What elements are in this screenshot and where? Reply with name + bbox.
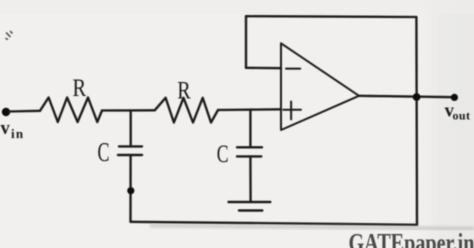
capacitor C2 [237, 147, 262, 156]
svg-text:R: R [73, 73, 87, 102]
wire C1 bottom down to bottom rail [129, 155, 131, 222]
node B stub down to C2 [249, 110, 251, 148]
op-amp U1 triangle [281, 43, 359, 130]
wire inverting input [246, 67, 281, 70]
node A stub down to C1 [130, 111, 132, 147]
wire bottom rail [131, 222, 418, 225]
wire Vin to R1 [9, 110, 40, 113]
wire op-amp output to Vout [359, 96, 454, 97]
wire right vertical (top to bottom through output node) [415, 17, 418, 225]
resistor R2 [155, 98, 218, 123]
svg-text:GATEpaper.in: GATEpaper.in [349, 229, 474, 248]
op-amp plus sign [283, 102, 301, 120]
node output junction dot [413, 93, 421, 101]
ground [229, 202, 271, 211]
svg-text:R: R [177, 75, 190, 104]
wire feedback left vertical [245, 16, 247, 68]
node Vin terminal dot [2, 108, 10, 116]
node Vout terminal dot [451, 94, 458, 101]
svg-text:C: C [217, 141, 229, 168]
svg-text:out: out [453, 109, 471, 123]
svg-text:C: C [98, 137, 110, 167]
wire C2 bottom to ground [249, 156, 252, 201]
junction dot below C1 [127, 187, 134, 194]
resistor R1 [40, 98, 102, 123]
op-amp minus sign [286, 68, 300, 70]
wire feedback top rail [246, 15, 416, 18]
wire R1 to R2 through node A [102, 109, 155, 112]
capacitor C1 [118, 146, 142, 155]
shadow under bottom rail (scan artifact) [150, 226, 474, 229]
svg-text:v: v [1, 119, 11, 139]
svg-text:in: in [11, 126, 24, 141]
speck (scan dust) top-left [6, 32, 12, 40]
wire R2 to op-amp + input through node B [218, 108, 281, 111]
